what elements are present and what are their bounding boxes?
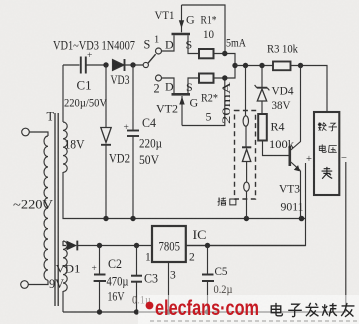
capacitor C2 (electrolytic) <box>94 246 106 313</box>
wire R4 to VT3 base <box>263 141 289 156</box>
wire socket bottom pin to mid rail <box>246 191 248 218</box>
transformer primary winding ~220V <box>44 136 48 280</box>
junction dot C4 on mid rail <box>130 216 135 221</box>
node B junction dot <box>130 62 135 67</box>
voltmeter plus lead <box>305 163 307 219</box>
wire VD3 to node B <box>125 64 144 66</box>
junction dot merge <box>232 63 237 68</box>
watermark faint underline marks <box>150 320 357 322</box>
VT3 emitter with arrow <box>291 162 301 219</box>
junction dot C3 <box>134 243 139 248</box>
wire VD1 to 7805 input <box>77 245 152 247</box>
transistor VT1 (FET) channel bar <box>172 33 191 36</box>
watermark 电子发烧友 (drawn glyphs) <box>271 303 354 317</box>
capacitor C4 (electrolytic to mid rail) <box>127 65 139 219</box>
junction dot R2 out <box>222 75 227 80</box>
resistor R4 <box>258 114 267 141</box>
diode VD2 <box>101 65 111 219</box>
wire top rail left segment <box>63 64 80 66</box>
wire R1 to merge column <box>214 54 236 66</box>
junction dot VT3 collector <box>298 63 303 68</box>
junction dot VD2 on mid rail <box>103 216 108 221</box>
junction dot R1 out <box>222 51 227 56</box>
wire R2 to merge column <box>214 66 236 79</box>
junction dots bottom rail <box>97 309 210 314</box>
IC 7805 box <box>152 226 186 262</box>
primary terminal top <box>22 128 48 136</box>
wire 7805 pin3 to bottom rail <box>168 262 170 312</box>
switch contact 2 <box>156 75 162 81</box>
transformer secondary 9V <box>63 241 67 291</box>
9V bottom to ground rail <box>62 291 64 312</box>
wire right bus to R3 <box>235 65 273 67</box>
VT1 gate feedback wire top <box>182 5 226 54</box>
VT2 gate lead with arrow <box>179 96 184 126</box>
wire bus to socket top pin <box>245 66 247 116</box>
DUT diode in socket <box>242 126 251 182</box>
node A junction dot <box>103 62 108 67</box>
wire contact1 to VT1 drain <box>162 35 175 51</box>
junction dot socket column <box>243 63 248 68</box>
primary terminal bottom <box>21 280 48 288</box>
junction dot VD4 column <box>259 63 264 68</box>
capacitor C1 (series electrolytic) <box>81 57 86 74</box>
VT3 collector <box>291 66 301 151</box>
capacitor C3 <box>131 246 142 313</box>
wire contact2 to VT2 drain <box>162 78 175 93</box>
diode VD3 <box>113 59 125 71</box>
transistor VT2 (FET) channel bar <box>172 93 191 96</box>
wire emitter node down to 7805 output <box>186 219 306 246</box>
resistor R1 <box>199 49 214 58</box>
transistor VT3 base bar <box>288 146 291 166</box>
socket bottom pin <box>244 182 250 191</box>
switch S pole <box>143 62 148 67</box>
wire C1 to node A <box>86 64 106 66</box>
VT2 gate feedback wire bottom <box>182 78 225 126</box>
junction dot socket on mid rail <box>244 216 249 221</box>
mid rail (18V return) <box>63 172 306 219</box>
digital voltmeter box <box>314 112 339 195</box>
VT1 gate lead with arrow <box>179 5 184 32</box>
socket plug dashed box <box>235 111 256 200</box>
junction dot C5 <box>205 243 210 248</box>
voltmeter text 数字电压表 (drawn glyphs) <box>318 122 337 178</box>
resistor R2 <box>199 74 214 83</box>
wire 18V top to top rail <box>62 65 64 122</box>
wire 9V top to VD1 <box>63 241 66 246</box>
diode VD1 <box>67 241 78 251</box>
junction dot C2 <box>97 243 102 248</box>
bottom ground rail <box>63 311 346 313</box>
zener diode VD4 <box>255 66 270 115</box>
label 插口 socket (drawn glyphs) <box>218 197 236 205</box>
transformer secondary 18V <box>63 122 67 172</box>
wire R3 to corner, down to voltmeter <box>291 66 328 113</box>
voltmeter minus lead <box>345 162 347 312</box>
watermark band <box>138 295 359 324</box>
VT2 source lead <box>188 78 199 93</box>
resistor R3 <box>273 62 291 71</box>
capacitor C5 <box>202 246 214 313</box>
transformer T core <box>55 113 58 306</box>
socket top pin <box>243 116 248 126</box>
wire 7805 output <box>186 245 306 247</box>
watermark red bullet <box>146 302 154 310</box>
switch S arm <box>148 54 156 63</box>
junction dot VT3 emitter node <box>299 216 305 222</box>
switch contact 1 <box>156 48 162 54</box>
VT1 source lead <box>188 35 199 53</box>
